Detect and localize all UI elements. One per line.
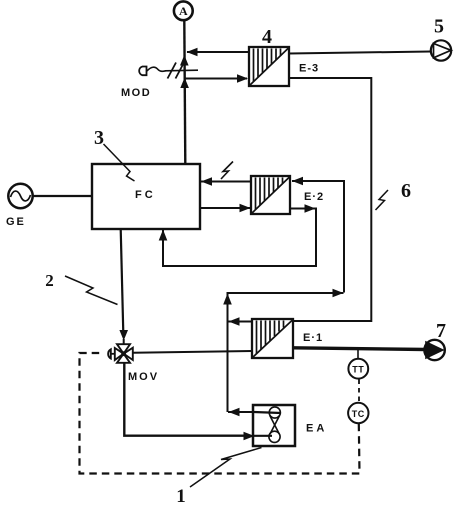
wire MOV bottom to EA [124,364,244,436]
leader lightning for 1 [190,448,262,488]
controller TC [348,403,368,423]
wire E-3 lower outlet to riser [289,78,371,321]
wire lower collector [228,293,344,412]
pump 5 [431,40,451,60]
arrow right into E-2 [240,204,251,213]
arrow left into main vertical [187,48,198,57]
arrow up on main vertical (upper) [180,55,189,66]
wire main vertical to E-3 inlet [185,78,247,80]
wire main vertical A to FC [184,20,185,164]
arrow right into E-3 [237,74,248,83]
svg-text:5: 5 [434,16,444,38]
svg-text:A: A [179,4,188,18]
dashed TT to TC [358,380,360,403]
svg-text:E·2: E·2 [304,191,324,203]
wire E-2 top to FC [201,181,251,183]
arrow left into FC [201,177,212,186]
arrow right into EA [244,432,255,441]
controller FC box [92,164,200,229]
leader lightning for 2 [65,276,118,305]
pump 7 [424,340,444,360]
wire into EA interior bottom [253,435,272,437]
svg-text:E-3: E-3 [299,63,319,75]
svg-text:1: 1 [176,486,186,506]
svg-text:2: 2 [45,271,54,290]
arrow left into E-2 [292,177,303,186]
sensor TT [357,349,359,359]
arrow left into riser [229,408,240,417]
svg-text:4: 4 [262,26,272,48]
heat exchanger E-2 [251,176,290,214]
indicator A [174,1,193,20]
wire E-2 bottom outlet to FC bottom [163,209,316,267]
svg-text:7: 7 [436,320,446,342]
wire E-1 to pump 7 (thick) [293,348,426,350]
arrow left into riser [229,317,240,326]
svg-text:MOD: MOD [121,87,151,99]
wire into EA interior top [253,412,281,413]
svg-text:3: 3 [94,127,104,149]
wire riser E-1/EA to E-2 right [292,181,344,293]
fan unit EA [253,405,295,446]
svg-text:MOV: MOV [128,371,159,383]
valve actuator (diaphragm) [108,349,111,358]
svg-text:EA: EA [306,423,327,435]
arrow up on main vertical (lower) [180,78,189,89]
arrow right before corner [305,204,316,213]
arrow down into MOV [119,330,128,341]
svg-text:FC: FC [135,189,156,201]
wire FC bottom to MOV [121,229,124,333]
leader lightning (on E-2 top wire) [221,162,233,180]
wire E-3 to pump 5 [289,52,431,54]
heat exchanger E-1 [252,319,293,358]
heat exchanger E-3 [249,47,289,86]
valve MOV [115,344,133,363]
wire E-3 outlet to main vertical [187,51,249,53]
svg-text:6: 6 [401,180,411,202]
arrow up at corner [223,294,232,305]
leader lightning for 6 [376,190,389,210]
arrow up into FC [159,230,168,241]
wire E-1 outlet left [228,321,252,323]
leader line for 3 [104,144,135,181]
MOD actuator symbol [139,63,198,79]
svg-text:E·1: E·1 [303,332,323,344]
wire EA outlet left [228,411,253,413]
svg-text:TC: TC [352,409,365,419]
wire GE to FC [33,195,92,197]
svg-text:TT: TT [352,365,364,375]
wire FC to E-2 bottom [200,207,250,209]
wire MOV to E-1 [133,351,252,353]
arrow right at corner [333,289,344,298]
dashed control line TC to MOV [80,353,360,474]
svg-text:GE: GE [6,216,26,228]
generator GE [8,184,32,208]
